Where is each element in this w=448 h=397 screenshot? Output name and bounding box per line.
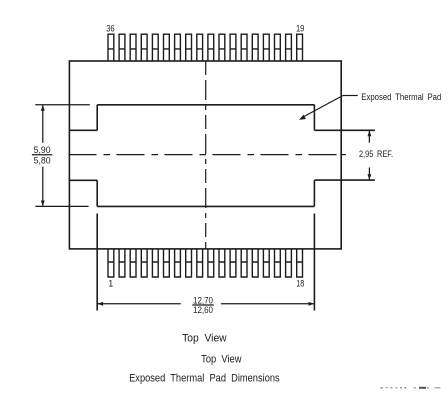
leader line of Exposed Thermal Pad label <box>304 96 358 117</box>
arrowhead down of dim 5,80 <box>41 201 45 207</box>
svg-text:5,80: 5,80 <box>34 155 51 165</box>
dim 5,90/5,80 fraction bar <box>32 154 52 156</box>
svg-text:18: 18 <box>296 278 304 288</box>
pin 9 lead <box>197 249 203 277</box>
arrowhead right of dim 12,60 <box>309 302 315 306</box>
arrowhead left of dim 12,70 <box>97 302 103 306</box>
pin 2 lead <box>119 249 125 277</box>
top pin row leads 36-19 <box>108 34 303 61</box>
pin 13 lead <box>241 249 247 277</box>
pin 33 lead <box>141 34 147 61</box>
pin 20 lead <box>286 34 292 61</box>
svg-text:19: 19 <box>296 23 305 33</box>
svg-text:Top View: Top View <box>201 354 241 366</box>
dim 5,90/5,80 line upper shaft <box>42 106 44 143</box>
svg-text:12,60: 12,60 <box>193 305 213 315</box>
pin 21 lead <box>275 34 281 61</box>
svg-text:Exposed Thermal Pad Dimensions: Exposed Thermal Pad Dimensions <box>129 373 280 385</box>
pin 32 lead <box>152 34 158 61</box>
pin 11 lead <box>219 249 225 277</box>
exposed pad left step bottom <box>69 179 97 181</box>
svg-text:12,70: 12,70 <box>193 296 213 306</box>
pin 28 lead <box>197 34 203 61</box>
pin 10 lead <box>208 249 214 277</box>
pin 29 lead <box>186 34 192 61</box>
pin 5 lead <box>152 249 158 277</box>
package body outline <box>69 61 341 249</box>
exposed pad left step top <box>69 129 97 131</box>
horizontal centerline <box>69 154 338 156</box>
dim 5,90/5,80 line lower shaft <box>42 167 44 206</box>
svg-text:2,95 REF.: 2,95 REF. <box>359 149 393 159</box>
dim 5,90/5,80 extension line top <box>35 104 90 106</box>
exposed pad lower-right vertical <box>313 180 315 206</box>
pin 31 lead <box>164 34 170 61</box>
dim 5,90/5,80 extension line bottom <box>35 205 88 207</box>
svg-text:Exposed Thermal Pad: Exposed Thermal Pad <box>361 92 441 102</box>
pin 27 lead <box>208 34 214 61</box>
exposed pad right step top + extension line <box>314 129 375 131</box>
faint watermark bottom right <box>381 387 441 389</box>
pin 18 lead <box>297 249 303 277</box>
pin 12 lead <box>230 249 236 277</box>
pin 3 lead <box>130 249 136 277</box>
dim 12,70/12,60 line right segment <box>221 303 314 305</box>
svg-text:Top View: Top View <box>182 332 227 344</box>
pin 14 lead <box>252 249 258 277</box>
arrowhead down of dim 2,95 <box>368 174 372 180</box>
pin 22 lead <box>263 34 269 61</box>
exposed pad bottom edge <box>97 205 314 207</box>
pin 35 lead <box>119 34 125 61</box>
pin 4 lead <box>141 249 147 277</box>
bottom pin row leads 1-18 <box>108 249 303 277</box>
pin 7 lead <box>175 249 181 277</box>
pin 36 lead <box>108 34 114 61</box>
dim 12,70 left extension line <box>96 214 98 311</box>
pin 1 lead <box>108 249 114 277</box>
pin 34 lead <box>130 34 136 61</box>
exposed pad lower-left vertical <box>96 180 98 206</box>
pin 17 lead <box>286 249 292 277</box>
exposed pad upper-left vertical <box>96 105 98 131</box>
svg-text:1: 1 <box>108 278 113 288</box>
arrowhead up of dim 5,90 <box>41 105 45 111</box>
pin 24 lead <box>241 34 247 61</box>
exposed pad right step bottom + extension line <box>314 179 375 181</box>
svg-text:36: 36 <box>106 23 115 33</box>
dim 12,70/12,60 line left segment <box>98 303 181 305</box>
exposed pad upper-right vertical <box>313 105 315 131</box>
pin 16 lead <box>275 249 281 277</box>
pin 8 lead <box>186 249 192 277</box>
leader arrowhead pointing at pad <box>299 115 306 120</box>
pin 26 lead <box>219 34 225 61</box>
pin 6 lead <box>164 249 170 277</box>
pin 30 lead <box>175 34 181 61</box>
dim 12,70 right extension line <box>313 214 315 311</box>
pin 15 lead <box>263 249 269 277</box>
arrowhead up of dim 2,95 <box>368 130 372 136</box>
pin 19 lead <box>297 34 303 61</box>
horizontal centerline end dash <box>340 154 346 156</box>
dim 2,95 REF. line lower shaft <box>368 168 370 180</box>
exposed pad top edge <box>97 104 314 106</box>
vertical centerline <box>205 61 207 249</box>
dim 2,95 REF. line upper shaft <box>368 131 370 143</box>
pin 23 lead <box>252 34 258 61</box>
dim 12,70/12,60 fraction bar <box>192 304 214 306</box>
pin 25 lead <box>230 34 236 61</box>
svg-text:5,90: 5,90 <box>34 145 51 155</box>
